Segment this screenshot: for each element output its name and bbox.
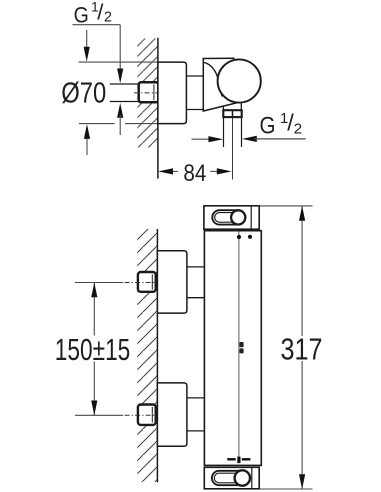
svg-text:317: 317 <box>281 333 323 366</box>
svg-text:2: 2 <box>294 121 302 138</box>
svg-text:G: G <box>74 2 89 27</box>
svg-text:150±15: 150±15 <box>55 332 131 367</box>
svg-text:84: 84 <box>183 161 206 187</box>
svg-text:2: 2 <box>104 10 112 26</box>
svg-text:Ø70: Ø70 <box>61 77 106 109</box>
svg-text:G: G <box>260 113 276 140</box>
